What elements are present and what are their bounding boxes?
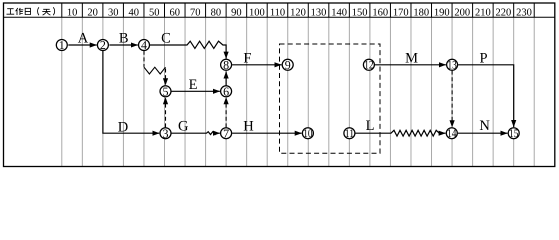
svg-text:130: 130 xyxy=(311,8,327,19)
svg-text:230: 230 xyxy=(516,8,532,19)
svg-text:120: 120 xyxy=(290,8,306,19)
svg-text:3: 3 xyxy=(163,126,169,140)
svg-text:50: 50 xyxy=(149,8,160,19)
svg-text:70: 70 xyxy=(190,8,201,19)
svg-text:7: 7 xyxy=(223,126,229,140)
svg-text:80: 80 xyxy=(211,8,222,19)
svg-text:13: 13 xyxy=(447,60,457,72)
svg-text:F: F xyxy=(243,51,251,67)
svg-text:G: G xyxy=(178,118,189,134)
svg-text:60: 60 xyxy=(170,8,181,19)
svg-text:30: 30 xyxy=(108,8,119,19)
svg-text:20: 20 xyxy=(87,8,98,19)
svg-text:2: 2 xyxy=(100,38,106,52)
svg-text:10: 10 xyxy=(303,128,313,140)
svg-text:210: 210 xyxy=(475,8,491,19)
svg-text:100: 100 xyxy=(249,8,265,19)
svg-text:M: M xyxy=(405,50,418,66)
svg-text:4: 4 xyxy=(141,38,147,52)
svg-text:B: B xyxy=(119,31,129,47)
svg-text:P: P xyxy=(479,50,487,66)
svg-text:90: 90 xyxy=(231,8,242,19)
svg-text:15: 15 xyxy=(509,128,519,140)
svg-text:12: 12 xyxy=(364,60,374,72)
svg-text:C: C xyxy=(161,31,171,47)
svg-text:9: 9 xyxy=(285,58,291,72)
svg-text:170: 170 xyxy=(393,8,409,19)
svg-text:E: E xyxy=(189,77,198,93)
svg-text:N: N xyxy=(479,118,490,134)
svg-text:10: 10 xyxy=(67,8,78,19)
svg-text:190: 190 xyxy=(434,8,450,19)
svg-text:110: 110 xyxy=(270,8,285,19)
svg-text:14: 14 xyxy=(447,128,457,140)
svg-text:6: 6 xyxy=(223,85,229,99)
svg-text:D: D xyxy=(118,120,128,136)
svg-text:150: 150 xyxy=(352,8,368,19)
svg-text:180: 180 xyxy=(413,8,429,19)
svg-text:220: 220 xyxy=(496,8,512,19)
svg-text:A: A xyxy=(78,31,89,47)
svg-text:5: 5 xyxy=(163,85,169,99)
svg-text:H: H xyxy=(243,118,254,134)
svg-text:11: 11 xyxy=(345,128,355,140)
svg-text:140: 140 xyxy=(331,8,347,19)
svg-text:40: 40 xyxy=(128,8,139,19)
svg-text:L: L xyxy=(366,118,375,134)
svg-text:200: 200 xyxy=(454,8,470,19)
svg-text:8: 8 xyxy=(223,58,229,72)
svg-text:1: 1 xyxy=(59,38,65,52)
svg-text:160: 160 xyxy=(372,8,388,19)
